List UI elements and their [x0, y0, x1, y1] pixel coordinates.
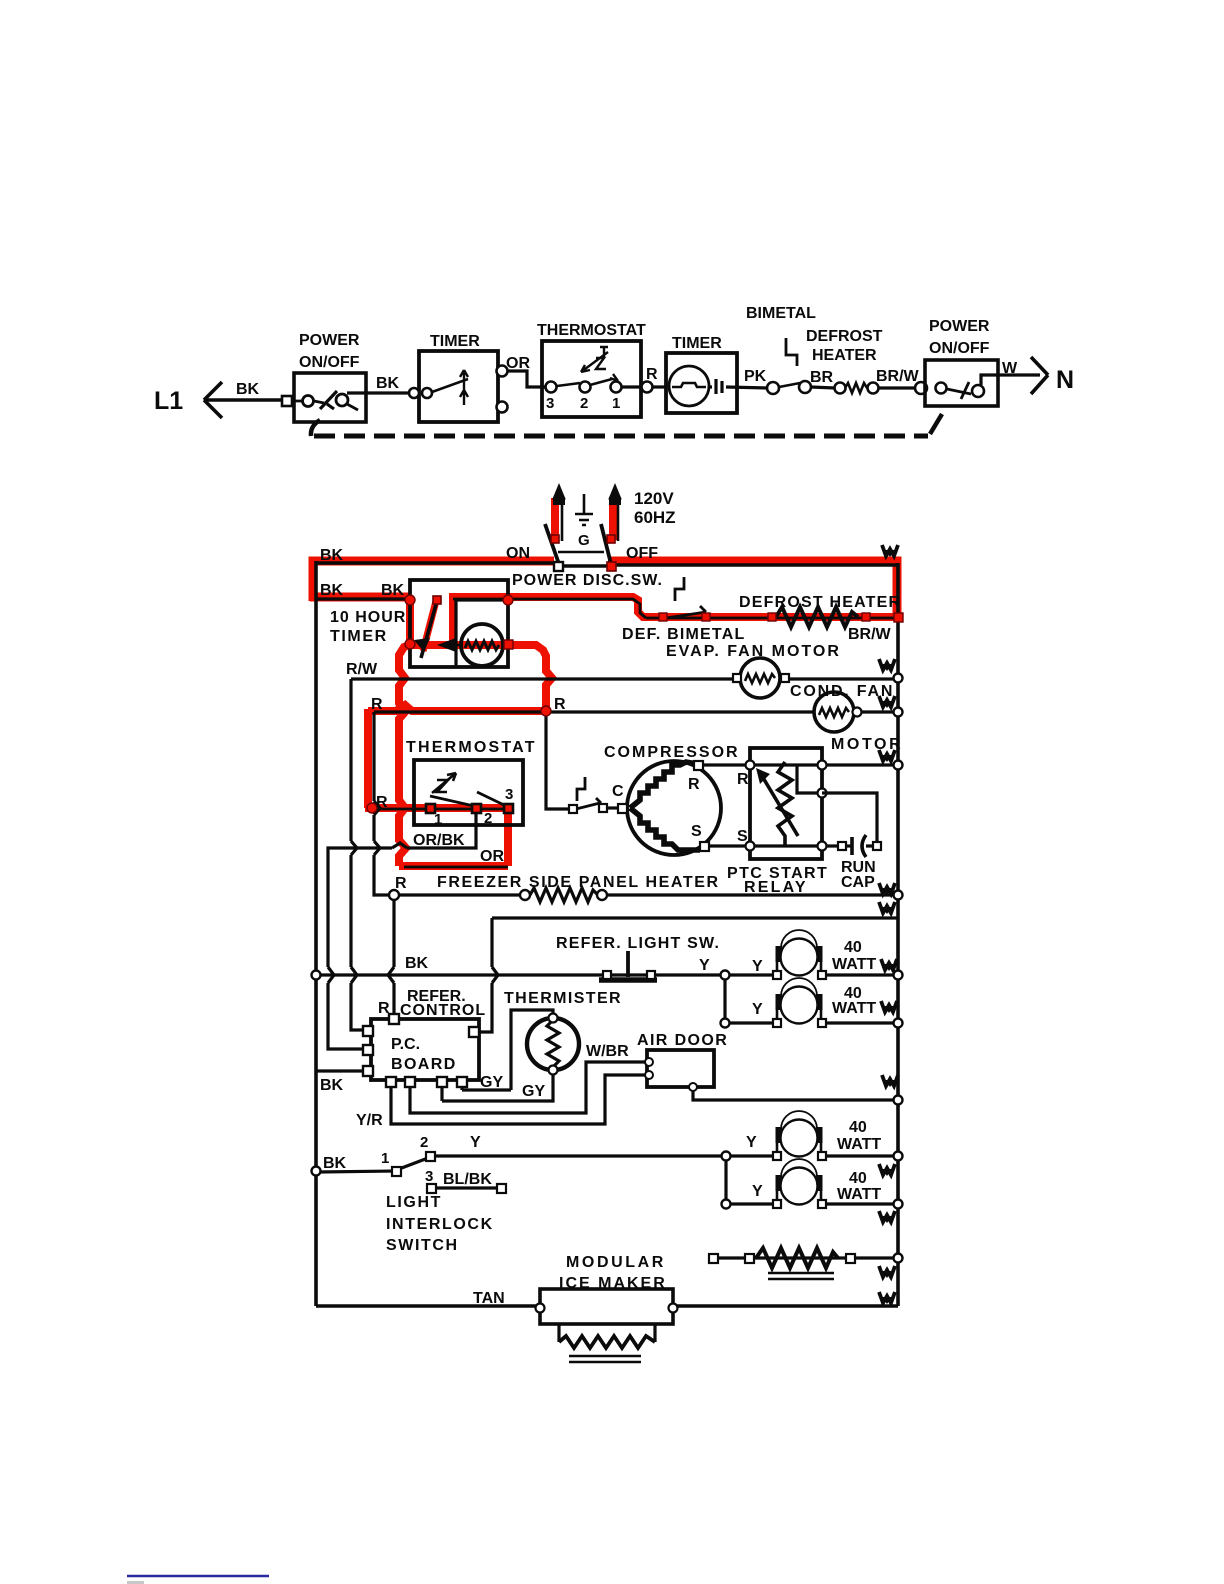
svg-text:POWER: POWER	[299, 332, 360, 349]
W mark above cond row	[879, 696, 895, 708]
svg-text:DEFROST: DEFROST	[806, 328, 883, 345]
PC board terminal squares: top R, left x3, right, bottom x4	[389, 1014, 399, 1024]
svg-text:MOTOR: MOTOR	[831, 736, 903, 753]
wire overload to C	[607, 806, 618, 809]
thermostat TH2 box (main)	[414, 760, 523, 825]
cond fan motor M2 circle	[814, 692, 854, 732]
wire: defrost heater row black	[646, 617, 898, 620]
overload terminal squares	[569, 805, 577, 813]
PTC terminal circles	[746, 761, 755, 770]
svg-text:P.C.: P.C.	[391, 1036, 420, 1053]
svg-text:3: 3	[505, 786, 513, 803]
jog on rail 394 at BK row	[388, 967, 394, 983]
T3 contact square (red)	[433, 596, 441, 604]
jogs on rail 374	[374, 801, 380, 855]
TH1 blade	[557, 379, 612, 386]
wire T1 to thermostat, OR	[508, 371, 545, 387]
svg-text:R: R	[554, 696, 566, 713]
throw contact stub SW1	[347, 404, 358, 410]
red path: OFF supply stub	[609, 497, 617, 540]
svg-text:BK: BK	[405, 955, 429, 972]
svg-text:TIMER: TIMER	[672, 335, 722, 352]
svg-text:3: 3	[546, 395, 554, 412]
svg-text:FREEZER SIDE PANEL HEATER: FREEZER SIDE PANEL HEATER	[437, 874, 720, 891]
svg-text:ON: ON	[506, 545, 530, 562]
ice maker heater skirt	[559, 1324, 655, 1342]
svg-text:G: G	[578, 532, 590, 549]
svg-text:CAP: CAP	[841, 874, 875, 891]
faint cut-off text remnant bottom left	[127, 1581, 144, 1584]
BL/BK stub wire	[436, 1186, 498, 1189]
selector bar T1 with arrows	[460, 370, 468, 405]
svg-text:OR/BK: OR/BK	[413, 832, 465, 849]
svg-text:Y: Y	[470, 1134, 481, 1151]
svg-text:40: 40	[849, 1170, 867, 1187]
compressor overload switch blade	[576, 798, 601, 809]
TH1 contact circles 3 2 1	[546, 382, 557, 393]
def bimetal switch blade	[666, 606, 706, 618]
svg-text:TIMER: TIMER	[430, 333, 480, 350]
run cap C1 wiring	[822, 793, 877, 846]
svg-text:RELAY: RELAY	[744, 879, 808, 896]
svg-text:BOARD: BOARD	[391, 1056, 457, 1073]
M1 terminal squares	[733, 674, 741, 682]
svg-text:Y: Y	[752, 1183, 763, 1200]
terminal on left edge of SW1	[282, 396, 292, 406]
svg-text:Y/R: Y/R	[356, 1112, 383, 1129]
outer box wire: top W rail	[316, 563, 898, 566]
ice heater shield double bars	[768, 1273, 834, 1279]
wire: lamp4 row	[726, 1156, 898, 1204]
ice maker terminal circles	[536, 1304, 545, 1313]
timer T1 box	[419, 351, 498, 422]
svg-text:ON/OFF: ON/OFF	[929, 340, 990, 357]
terminal circle node R	[642, 382, 653, 393]
ground symbol G	[575, 494, 593, 525]
wire heater to SW2	[878, 386, 916, 389]
run cap symbol	[850, 837, 854, 855]
wire: BK row 2 (left edge to 10hr timer)	[316, 597, 410, 600]
svg-text:2: 2	[580, 395, 588, 412]
red node at R row motor junction	[541, 706, 551, 716]
TH1 arm tick at circle1	[610, 374, 618, 381]
svg-text:S: S	[737, 828, 748, 845]
wire: freezer side panel heater row	[394, 893, 898, 896]
bimetal blade	[779, 383, 800, 387]
outer box wire: right W rail	[896, 563, 900, 1306]
switch blade SW1	[320, 391, 337, 409]
svg-text:CONTROL: CONTROL	[400, 1002, 486, 1019]
svg-text:WATT: WATT	[837, 1136, 881, 1153]
wire T2 to PK terminal	[709, 387, 768, 388]
svg-text:S: S	[691, 823, 702, 840]
def bimetal terminal squares (red)	[659, 613, 667, 621]
timer T2 box (motor)	[666, 353, 737, 413]
TH1 adjust arrow	[581, 347, 608, 372]
svg-text:40: 40	[849, 1119, 867, 1136]
svg-text:GY: GY	[522, 1083, 545, 1100]
jog on frame connector at BK row	[492, 967, 498, 983]
link bar between ON and OFF blades	[558, 551, 604, 554]
red path: timer inner left vertical	[406, 599, 414, 644]
svg-text:BK: BK	[323, 1155, 347, 1172]
compressor C terminal square	[618, 804, 627, 813]
T3 blade arrowhead	[414, 638, 430, 652]
SW2 blade and slash	[947, 382, 971, 399]
PC board box	[371, 1019, 479, 1080]
svg-text:HEATER: HEATER	[812, 347, 877, 364]
svg-text:W/BR: W/BR	[586, 1043, 629, 1060]
OFF stub contact square (red)	[607, 535, 615, 543]
svg-text:BK: BK	[320, 582, 344, 599]
evap fan motor M1 circle	[740, 658, 780, 698]
svg-text:DEFROST HEATER: DEFROST HEATER	[739, 594, 901, 611]
svg-text:TIMER: TIMER	[330, 628, 388, 645]
W mark above frame line	[879, 902, 895, 914]
svg-text:60HZ: 60HZ	[634, 508, 676, 527]
TH2 adjust arrow	[432, 773, 456, 793]
OFF blade and arrow	[601, 524, 611, 564]
terminal circle BR	[799, 381, 811, 393]
wire: interlock row from left edge	[319, 1171, 396, 1172]
svg-text:40: 40	[844, 939, 862, 956]
svg-text:THERMOSTAT: THERMOSTAT	[537, 322, 646, 339]
compressor overload hook symbol	[577, 777, 585, 801]
svg-text:R: R	[376, 794, 388, 811]
outer box wire: bottom TAN row	[316, 1304, 898, 1308]
wire SW2 up and out, W	[981, 375, 1040, 385]
svg-text:BK: BK	[236, 381, 260, 398]
wire BR to heater	[811, 387, 835, 388]
M2 right terminal circle	[853, 708, 862, 717]
red path: BK row 2 from left edge to timer box	[310, 593, 409, 602]
wire: ice heater row right	[713, 1256, 898, 1259]
wire: GY from PC T4 to thermistor bottom	[442, 1087, 462, 1101]
outer box wire: left BK rail	[314, 561, 318, 1306]
defrost heater R1 (ladder)	[835, 383, 846, 394]
wire: thermostat row black	[374, 808, 510, 811]
svg-text:COND. FAN: COND. FAN	[790, 683, 894, 700]
svg-text:W: W	[1002, 360, 1018, 377]
switch SW2 POWER ON/OFF (right) box	[925, 360, 998, 406]
wire: OR row black under red	[404, 866, 508, 869]
svg-text:1: 1	[434, 811, 442, 828]
wire: GY2 from PC T3 to thermistor bottom	[442, 1073, 553, 1101]
red node at thermostat row left	[367, 803, 377, 813]
red path: left edge top segment + top wire to ON switch	[313, 561, 554, 601]
red path: timer switch blade highlight	[423, 601, 436, 651]
bimetal B1 symbol	[786, 338, 797, 366]
ice maker shield double bars	[569, 1356, 641, 1362]
T3 red square node right edge motor row	[504, 640, 513, 649]
T3 switch blade	[421, 601, 437, 658]
wire: GY riser to thermistor top	[511, 1010, 553, 1090]
wire: inner frame top line	[492, 916, 898, 919]
svg-text:1: 1	[381, 1150, 389, 1167]
svg-text:TAN: TAN	[473, 1290, 505, 1307]
red path: left red vertical down to thermostat row	[364, 709, 372, 808]
svg-text:10 HOUR: 10 HOUR	[330, 609, 406, 626]
svg-text:ON/OFF: ON/OFF	[299, 354, 360, 371]
W mark lamp2	[881, 1001, 897, 1013]
terminal circle BR/W	[915, 382, 927, 394]
air door terminal circles	[645, 1058, 653, 1066]
M1 resistor squiggle	[745, 674, 775, 683]
lamp L1 40W	[773, 930, 826, 979]
svg-text:R: R	[646, 366, 658, 383]
lamp row junction nodes	[721, 971, 730, 980]
jog on rail 328 at BK row	[328, 967, 334, 983]
svg-text:BK: BK	[320, 1077, 344, 1094]
SW2 contact circle a	[936, 383, 947, 394]
PTC start relay box	[750, 748, 822, 859]
wire N arrow right	[1031, 357, 1048, 394]
svg-text:WATT: WATT	[837, 1186, 881, 1203]
wire: rail R/W down from evap row	[351, 679, 368, 1030]
ON contact square (white)	[554, 562, 563, 571]
TH2 blade 2-3	[477, 792, 504, 805]
svg-text:N: N	[1056, 366, 1074, 394]
svg-text:Y: Y	[746, 1134, 757, 1151]
svg-text:Y: Y	[699, 957, 710, 974]
svg-text:POWER DISC.SW.: POWER DISC.SW.	[512, 572, 663, 589]
def bimetal B2 hook symbol	[675, 577, 684, 601]
red path: ON supply stub	[551, 498, 559, 540]
svg-text:SWITCH: SWITCH	[386, 1237, 459, 1254]
TH2 blade 1-2	[430, 796, 474, 806]
wire: compressor S row	[708, 844, 842, 847]
W mark above evap row	[879, 659, 895, 671]
red path: down from thermostat terminal 3	[504, 808, 512, 866]
svg-text:Y: Y	[752, 1001, 763, 1018]
T3 motor resistor squiggle	[465, 641, 499, 650]
T2 capacitor bars	[716, 379, 722, 394]
switch SW1 POWER ON/OFF (left) box	[294, 373, 366, 422]
contact circle SW1-b	[336, 394, 348, 406]
timer T3 10 HOUR TIMER box	[410, 580, 508, 667]
svg-text:120V: 120V	[634, 489, 674, 508]
svg-text:DEF. BIMETAL: DEF. BIMETAL	[622, 626, 745, 643]
wire: Y/R from PC T1 to air door	[391, 1075, 645, 1124]
wire L1 arrow left with BK wire	[204, 382, 294, 418]
defrost heater R2 zigzag	[776, 607, 858, 627]
svg-text:GY: GY	[480, 1074, 503, 1091]
svg-text:REFER. LIGHT SW.: REFER. LIGHT SW.	[556, 935, 720, 952]
red path: defrost heater row from right edge back to step and into timer box	[453, 597, 897, 644]
svg-text:EVAP. FAN MOTOR: EVAP. FAN MOTOR	[666, 643, 841, 660]
defrost heater terminal squares (red)	[768, 613, 776, 621]
svg-text:2: 2	[420, 1134, 428, 1151]
red path: thermostat row to terminal 3	[365, 804, 508, 812]
wire SW1 to TIMER1, BK	[347, 391, 419, 394]
T3 red node on left edge top	[405, 595, 415, 605]
W mark top right	[882, 545, 898, 557]
svg-text:BR/W: BR/W	[876, 368, 920, 385]
light interlock switch SW4 blade	[399, 1158, 428, 1169]
red path: motor row through timer motor, to the right and down to R row	[412, 645, 552, 708]
svg-text:PK: PK	[744, 368, 767, 385]
svg-text:WATT: WATT	[832, 1000, 876, 1017]
svg-text:1: 1	[612, 395, 620, 412]
svg-text:R/W: R/W	[346, 661, 378, 678]
terminal circles T1 left	[409, 388, 419, 398]
svg-text:R: R	[378, 1000, 390, 1017]
W mark above compressor R row	[879, 750, 895, 762]
compressor R terminal square	[694, 761, 703, 770]
W mark below lamp3 row	[879, 1164, 895, 1176]
SW4 contact squares 1 2 3	[392, 1167, 401, 1176]
svg-text:THERMISTER: THERMISTER	[504, 990, 622, 1007]
W mark run cap row	[879, 883, 895, 895]
T3 motor arrow (left-pointing)	[437, 638, 456, 652]
red path: R row leftward	[368, 705, 546, 711]
T2 motor circle	[669, 366, 709, 406]
svg-text:3: 3	[425, 1168, 433, 1185]
wire inside SW1	[292, 401, 324, 403]
wire TH1 to T2, R	[622, 385, 666, 388]
thermistor bottom node	[549, 1066, 558, 1075]
wire: frame connector vertical to PC board right terminal	[474, 918, 492, 1032]
lamp L3 40W	[773, 1111, 826, 1160]
svg-text:2: 2	[484, 810, 492, 827]
wire: compressor R row	[702, 763, 898, 766]
wire: left edge stub to PC left terminal 3	[316, 1069, 363, 1072]
freezer side panel heater R3	[520, 890, 530, 900]
SW3 contact squares	[603, 971, 611, 979]
svg-text:R: R	[688, 776, 700, 793]
ice compartment heater R4 row	[709, 1254, 718, 1263]
junction node circles on left edge	[312, 971, 321, 980]
thermostat TH1 box	[542, 341, 641, 417]
T3 inner partition	[456, 600, 508, 667]
OFF contact square (red)	[607, 562, 616, 571]
svg-text:BK: BK	[381, 582, 405, 599]
thermistor TR circle	[527, 1018, 579, 1070]
jogs on rail 351 at OR row and BK row	[351, 841, 357, 983]
svg-text:R: R	[395, 875, 407, 892]
svg-text:R: R	[371, 696, 383, 713]
SW2 contact circle b	[972, 385, 984, 397]
red path: return vertical with jogs up to timer motor row	[399, 644, 412, 866]
svg-text:COMPRESSOR: COMPRESSOR	[604, 744, 740, 761]
svg-text:ICE MAKER: ICE MAKER	[559, 1275, 667, 1292]
svg-text:INTERLOCK: INTERLOCK	[386, 1216, 494, 1233]
T3 red node on right edge top	[503, 595, 513, 605]
TH2 terminal squares 1 2 3	[426, 804, 435, 813]
T3 timer motor circle	[461, 624, 503, 666]
wire: lamp2 row	[725, 975, 898, 1023]
svg-text:BL/BK: BL/BK	[443, 1171, 492, 1188]
svg-text:C: C	[612, 783, 624, 800]
T3 red node on left edge bottom	[405, 639, 415, 649]
wire: BK light row	[316, 973, 898, 976]
refer light switch SW3: stem and bar	[626, 951, 630, 977]
terminal circle PK	[767, 382, 779, 394]
wire: air door output row	[693, 1087, 898, 1100]
junction node circles on right edge	[894, 674, 903, 683]
compressor winding lower (stepped)	[630, 808, 700, 850]
compressor S terminal square	[700, 842, 709, 851]
red square node right edge heater row	[894, 613, 903, 622]
svg-text:R: R	[737, 771, 749, 788]
red path: OR row leftward	[399, 862, 508, 870]
ON stub contact square (red)	[551, 535, 559, 543]
wire: C branch from R row node down to compressor switch	[546, 711, 568, 809]
svg-text:Y: Y	[752, 958, 763, 975]
svg-text:BIMETAL: BIMETAL	[746, 305, 816, 322]
ON blade and arrow (power disc sw)	[545, 524, 559, 564]
svg-text:OR: OR	[480, 848, 504, 865]
modular ice maker box	[540, 1289, 673, 1324]
wire: OR/BK row from thermostat terminal2 down and left	[328, 812, 476, 1049]
svg-text:WATT: WATT	[832, 956, 876, 973]
compressor MC circle	[627, 761, 721, 855]
red path: top wire from OFF switch to right edge and down to heater row	[608, 561, 897, 614]
svg-text:POWER: POWER	[929, 318, 990, 335]
svg-text:L1: L1	[154, 387, 183, 415]
thermistor top node	[549, 1014, 558, 1023]
lamp L4 40W	[773, 1159, 826, 1208]
W mark below lamp4 row	[879, 1211, 895, 1223]
PTC inner small box	[797, 765, 822, 793]
wire: rail from freezer row node down to PC board R terminal	[392, 895, 395, 1014]
PTC zigzag element	[778, 762, 792, 845]
svg-text:LIGHT: LIGHT	[386, 1194, 442, 1211]
W mark air door row	[882, 1075, 898, 1087]
wire: cond fan row R	[374, 710, 898, 713]
svg-text:THERMOSTAT: THERMOSTAT	[406, 739, 537, 756]
M2 resistor squiggle	[819, 708, 849, 717]
wire: row2 inside timer to defrost step	[453, 599, 646, 618]
W mark lamp1	[881, 959, 897, 971]
thermistor zigzag	[547, 1020, 559, 1067]
wire: rail R down to freezer row corner	[374, 712, 394, 895]
compressor winding upper (stepped)	[630, 762, 697, 808]
footer blue rule	[127, 1575, 269, 1577]
PTC arrow	[762, 776, 798, 836]
svg-text:BR/W: BR/W	[848, 626, 892, 643]
svg-text:OFF: OFF	[626, 545, 658, 562]
contact circle SW1-a	[303, 396, 314, 407]
W mark below ice heater row	[879, 1266, 895, 1278]
T2 heater bar inside	[672, 383, 706, 387]
svg-text:BK: BK	[376, 375, 400, 392]
lamp L2 40W	[773, 978, 826, 1027]
jog on OR/BK row at red vertical	[392, 843, 407, 848]
svg-text:AIR DOOR: AIR DOOR	[637, 1032, 728, 1049]
wire: W/BR from PC T2 to air door	[410, 1062, 645, 1113]
blade T1	[432, 379, 468, 392]
W mark above bottom row	[879, 1292, 895, 1304]
terminal circles T1 right	[497, 366, 508, 377]
wire: evap fan row R/W	[351, 677, 898, 680]
svg-text:BK: BK	[320, 547, 344, 564]
wire: lamp3 row from interlock contact 2	[434, 1154, 898, 1157]
mechanical link dashed line between SW1 and SW2	[311, 420, 320, 436]
air door box	[647, 1050, 714, 1087]
freezer row left node circle	[389, 890, 399, 900]
svg-text:MODULAR: MODULAR	[566, 1254, 666, 1271]
svg-text:BR: BR	[810, 369, 834, 386]
run cap terminal square	[838, 842, 846, 850]
